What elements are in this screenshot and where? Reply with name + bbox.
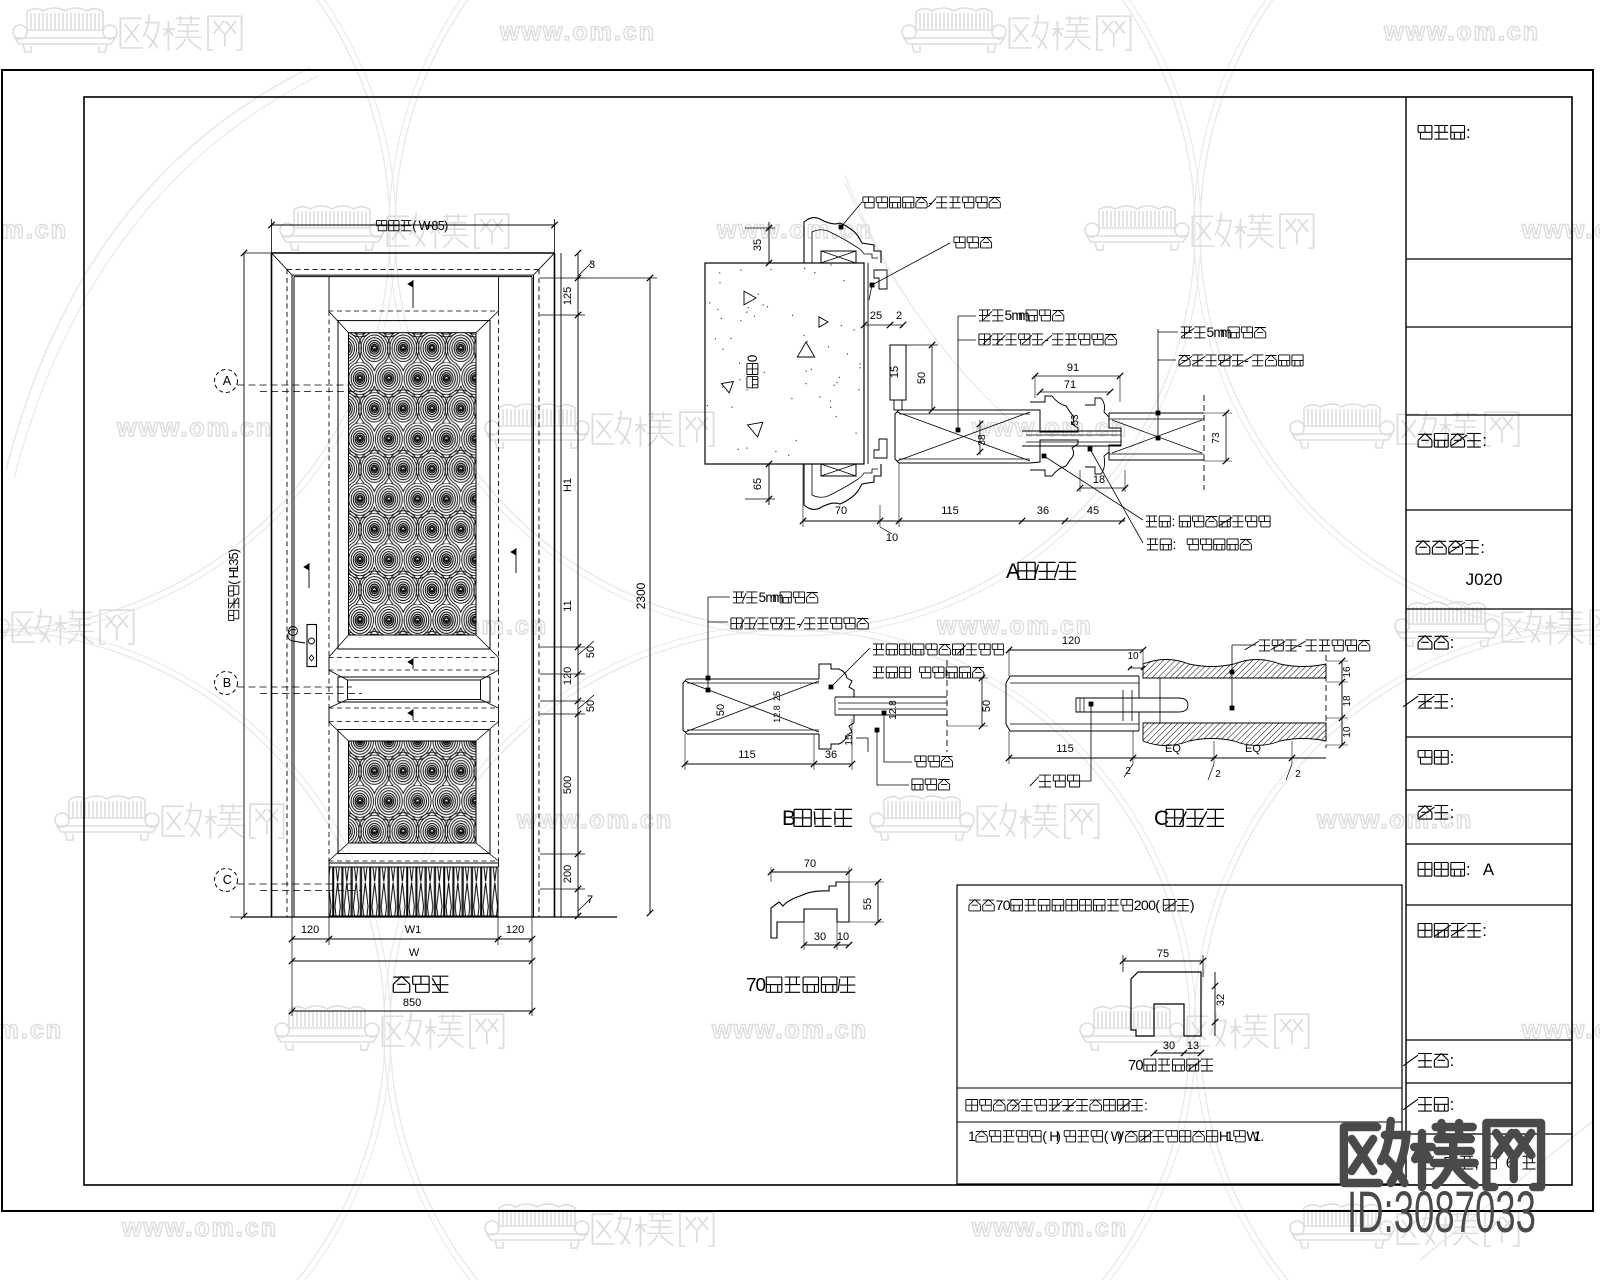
svg-text:55: 55 [862,898,874,910]
svg-text:91: 91 [1067,362,1079,374]
svg-text:12.8: 12.8 [772,705,782,723]
upper rose panel [329,310,499,312]
svg-text:70: 70 [835,505,847,517]
svg-text:0: 0 [1003,898,1011,914]
site logo big 欧模网 [1344,1121,1541,1187]
architrave profile top [804,218,881,263]
svg-text:38: 38 [977,434,988,446]
svg-text:115: 115 [1056,743,1074,755]
svg-text::: : [1480,538,1485,557]
svg-text:850: 850 [403,997,421,1009]
svg-text:53: 53 [1070,414,1081,426]
svg-text:10: 10 [837,931,849,943]
svg-text:500: 500 [562,776,574,794]
svg-text:25: 25 [772,691,782,701]
svg-text:A: A [1483,860,1495,879]
svg-text:www.om.cn: www.om.cn [499,18,656,46]
svg-text:120: 120 [301,924,319,936]
svg-text:-: - [796,616,801,631]
svg-text:.: . [1260,1128,1264,1144]
svg-text:25: 25 [870,310,882,322]
section view C 剖视图 [1010,675,1139,677]
svg-text:www.om.cn: www.om.cn [716,216,873,244]
door handle and lock plate [307,625,317,667]
svg-text:32: 32 [1215,994,1227,1006]
svg-text:73: 73 [1211,432,1222,444]
svg-text:W1: W1 [405,924,422,936]
svg-text:115: 115 [941,505,959,517]
svg-text:65: 65 [752,478,764,490]
svg-text:75: 75 [1157,948,1169,960]
svg-text:120: 120 [562,667,574,685]
svg-text:120: 120 [506,924,524,936]
svg-text:www.om.cn: www.om.cn [1383,18,1540,46]
svg-text:(: ( [1042,1128,1047,1144]
inner drawing frame [84,97,1572,1185]
svg-text:45: 45 [1087,505,1099,517]
svg-text::: : [1172,514,1176,529]
svg-text:www.om.cn: www.om.cn [116,414,273,442]
svg-text:30: 30 [1163,1040,1175,1052]
svg-text::: : [1466,860,1471,879]
svg-text:16: 16 [1342,666,1353,678]
svg-text:EQ: EQ [1165,743,1181,755]
svg-text:EQ: EQ [1245,743,1261,755]
astragal stop profiles [1030,396,1078,432]
svg-text:0: 0 [1135,1058,1143,1074]
svg-text:0: 0 [745,354,760,362]
svg-text::: : [1173,537,1177,552]
svg-text:15: 15 [889,366,901,378]
svg-text:): ) [444,219,448,233]
svg-text:H1: H1 [562,478,574,492]
svg-text:7: 7 [587,894,593,906]
watermark layer: big arcs, sofa logos, urls [0,0,390,630]
svg-text:11: 11 [562,600,574,611]
svg-text:): ) [1190,898,1195,914]
svg-text::: : [1450,1051,1455,1070]
ID:3087033 [1347,1181,1536,1246]
svg-text:www.om.cn: www.om.cn [0,216,68,244]
svg-text:10: 10 [1342,726,1353,738]
svg-text:10: 10 [1127,651,1139,662]
70 base profile detail [1131,972,1201,1036]
right leaf section with X [1109,412,1204,414]
elevation dimensions [271,219,273,253]
svg-text:115: 115 [738,749,756,761]
middle lock-rail panel [329,669,499,671]
lower rose panel [329,721,499,723]
svg-text:www.om.cn: www.om.cn [121,1214,278,1242]
svg-text:13: 13 [1187,1040,1199,1052]
svg-text:www.om.cn: www.om.cn [711,1016,868,1044]
door jamb [863,263,865,464]
svg-text:2: 2 [1295,769,1301,780]
svg-text:J020: J020 [1466,570,1503,589]
wall with concrete hatch [705,263,864,464]
svg-text:120: 120 [1062,635,1080,647]
svg-text:W: W [409,947,420,959]
svg-text:18: 18 [1342,695,1353,707]
svg-text::: : [1450,692,1455,711]
svg-text::: : [1482,431,1487,450]
svg-text:B: B [223,676,231,690]
svg-text:36: 36 [825,749,837,761]
architrave profile bottom [804,464,881,509]
svg-text:50: 50 [916,372,928,384]
svg-text:2: 2 [896,310,902,322]
svg-text::: : [1450,803,1455,822]
svg-text::: : [1450,748,1455,767]
svg-text:C: C [223,873,232,887]
svg-text::: : [1450,633,1455,652]
svg-text:ID:3087033: ID:3087033 [1347,1181,1536,1246]
fluted base strip [329,862,498,864]
section markers A B C [215,370,238,393]
svg-text:71: 71 [1064,379,1076,391]
frame blocking X boxes [821,251,856,263]
door casing [272,252,555,254]
svg-text:www.om.cn: www.om.cn [0,1016,63,1044]
svg-text:50: 50 [715,704,727,716]
casing moulding detail 70套线大样图 [771,882,849,938]
svg-text:2: 2 [1215,769,1221,780]
svg-text:www.om.cn: www.om.cn [516,806,673,834]
svg-text:35: 35 [752,239,764,251]
svg-text:1: 1 [968,1128,976,1144]
A section dimension chain [803,520,1125,522]
svg-text:15: 15 [844,734,855,746]
svg-text:200: 200 [562,865,574,883]
svg-text::: : [1466,123,1471,142]
svg-text:125: 125 [562,287,574,305]
svg-text:50: 50 [981,700,993,712]
svg-text:2300: 2300 [634,582,648,609]
svg-text:www.om.cn: www.om.cn [971,1214,1128,1242]
door leaf section with X [899,409,1030,411]
title block labels [1418,126,1432,140]
svg-text::: : [1450,1095,1455,1114]
svg-text:30: 30 [814,931,826,943]
section view B 剖视图 [687,678,819,680]
svg-text:): ) [1118,1128,1123,1144]
svg-text:(: ( [1104,1128,1109,1144]
title block [1405,97,1407,1185]
svg-text:36: 36 [1037,505,1049,517]
svg-text:www.om.cn: www.om.cn [1521,216,1600,244]
svg-text:70: 70 [804,858,816,870]
svg-text::: : [1144,1098,1148,1114]
svg-text:3: 3 [589,259,595,271]
svg-text:): ) [1056,1128,1061,1144]
svg-text::: : [1482,921,1487,940]
svg-text:12.8: 12.8 [888,700,899,720]
notes box [957,885,1402,1184]
svg-text:18: 18 [1093,474,1105,486]
svg-text:): ) [227,549,241,553]
svg-text:1: 1 [1226,1128,1234,1144]
svg-text:(: ( [1155,898,1160,914]
svg-text:0: 0 [756,975,767,996]
svg-text:www.om.cn: www.om.cn [971,414,1128,442]
svg-text:A: A [223,374,232,388]
